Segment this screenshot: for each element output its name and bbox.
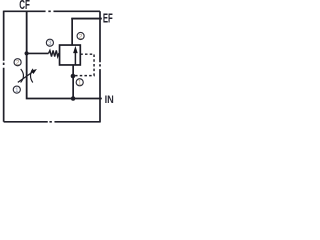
valve flow arrow head bbox=[73, 46, 78, 53]
valve envelope bottom edge (long-dashed) bbox=[4, 121, 100, 123]
callout circle 2 (left of orifice) bbox=[14, 59, 21, 67]
wire: CF vertical line down then IN run right bbox=[27, 11, 102, 98]
node junction dot on CF line (spring branch) bbox=[25, 51, 29, 55]
wire: valve bottom port down to IN line bbox=[72, 65, 74, 99]
variable orifice adjustment arrow head bbox=[31, 69, 37, 74]
valve envelope left edge (long-dashed) bbox=[3, 11, 5, 122]
svg-text:IN: IN bbox=[105, 94, 114, 106]
wire: valve top port up to EF line bbox=[71, 18, 73, 45]
svg-text:1: 1 bbox=[15, 87, 19, 94]
svg-text:CF: CF bbox=[19, 0, 30, 12]
variable orifice right arc bbox=[30, 69, 33, 83]
svg-text:1: 1 bbox=[78, 80, 82, 87]
compensator valve box bbox=[60, 45, 81, 65]
variable orifice adjustment arrow shaft bbox=[18, 72, 32, 82]
svg-text:3: 3 bbox=[48, 40, 52, 47]
spring (compensator spring zigzag) bbox=[49, 50, 60, 56]
pilot line (dashed) from valve right side to bottom tap bbox=[75, 54, 94, 75]
valve flow arrow shaft bbox=[74, 53, 76, 65]
background bbox=[0, 0, 116, 127]
node junction dot (pilot tap) bbox=[71, 74, 76, 79]
valve envelope right edge (long-dashed) bbox=[99, 11, 101, 122]
valve envelope top edge (long-dashed) bbox=[4, 10, 100, 12]
wire: spring branch horizontal bbox=[27, 52, 49, 54]
wire: EF horizontal line bbox=[71, 18, 102, 20]
svg-text:2: 2 bbox=[79, 33, 83, 40]
svg-text:2: 2 bbox=[16, 60, 20, 67]
variable orifice left arc bbox=[21, 69, 24, 83]
callout circle 2 (on EF drop line) bbox=[77, 32, 84, 40]
svg-text:EF: EF bbox=[103, 12, 113, 26]
callout circle 1 (left of orifice inlet) bbox=[13, 86, 20, 94]
callout circle 3 (above spring) bbox=[46, 39, 53, 47]
callout circle 1 (below pilot tap) bbox=[76, 79, 83, 87]
node junction dot (tee on IN line) bbox=[71, 96, 76, 101]
